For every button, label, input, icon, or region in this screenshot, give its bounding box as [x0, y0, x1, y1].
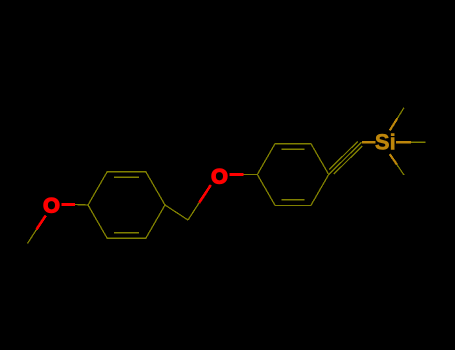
- wire O1-CH3 red half: [37, 216, 46, 230]
- Si methyl up peru half: [390, 118, 398, 130]
- Si methyl down olive half: [397, 165, 404, 175]
- wire O2-ring2 red half: [230, 173, 244, 176]
- wire CH2-O2 olive half: [188, 203, 199, 220]
- benzene ring 2 (phenyl-alkyne ring): [257, 144, 328, 206]
- alkyne flank line lower: [334, 146, 363, 174]
- wire O1-ring olive half: [75, 204, 88, 207]
- Si methyl right olive half: [411, 141, 426, 143]
- svg-text:Si: Si: [375, 130, 396, 155]
- wire O1-ring red half: [62, 203, 75, 206]
- wire ring1-CH2: [165, 205, 188, 220]
- Si methyl up olive half: [397, 108, 404, 119]
- wire CH2-O2 red half: [199, 185, 211, 203]
- Si methyl down peru half: [390, 154, 397, 164]
- Si methyl right peru half: [396, 141, 411, 143]
- ring 1 double bond top: [114, 176, 139, 178]
- wire C2-Si peru half: [362, 141, 375, 143]
- ring 1 double bond bottom: [114, 232, 139, 234]
- wire O2-ring2 olive half: [244, 174, 258, 176]
- alkyne flank line upper: [329, 141, 358, 169]
- svg-text:O: O: [43, 194, 60, 218]
- ring 2 double bond top: [282, 148, 305, 150]
- ring 2 double bond bottom: [282, 199, 305, 201]
- alkyne triple bond center line: [329, 142, 362, 174]
- methyl CH3 wire (olive half of O-CH3 bond): [28, 230, 37, 244]
- svg-text:O: O: [211, 165, 228, 189]
- benzene ring 1 (PMB ring): [88, 172, 165, 239]
